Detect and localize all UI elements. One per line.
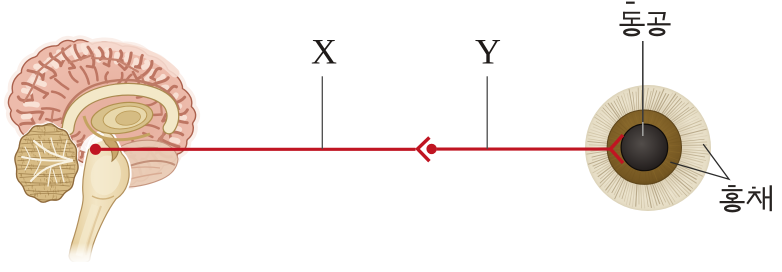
neuron Y axon (wire) <box>437 148 611 151</box>
iris inner brown ring <box>607 110 681 184</box>
sulci <box>18 111 43 113</box>
top highlight band <box>30 46 175 85</box>
red neural pathway <box>90 135 623 163</box>
temporal lobe pale region <box>106 140 178 187</box>
neuron Y cell body (dot) <box>426 144 436 154</box>
neuron X cell body (dot in midbrain) <box>90 144 101 155</box>
svg-text:Y: Y <box>475 32 501 72</box>
brainstem (one mass, white separation under-stroke) <box>69 133 129 263</box>
white cistern wedge near dot <box>80 133 104 153</box>
soft outer halo <box>8 40 195 185</box>
brain (midsagittal section) <box>8 40 195 272</box>
svg-text:X: X <box>311 32 337 72</box>
thalamus <box>89 98 155 137</box>
cingulate arc around corpus callosum <box>62 80 179 124</box>
eye (front view of iris and pupil) <box>585 85 711 211</box>
cerebrum <box>8 40 195 185</box>
cerebellum (white separation halo) <box>15 124 78 202</box>
corpus callosum <box>68 89 173 129</box>
midbrain dark crescent right of dot <box>103 138 118 161</box>
label 홍채 (iris), drawn as vector glyphs <box>720 185 772 211</box>
neuron X axon (wire) <box>96 148 416 151</box>
pons bulge highlight <box>88 153 124 198</box>
neuron X axon terminal (synapse arrowhead) <box>418 138 430 162</box>
leader line from X to axon <box>321 76 323 149</box>
neuron Y axon terminal at iris (arrowhead) <box>611 135 624 163</box>
fornix <box>84 116 150 140</box>
label 동공 (pupil), drawn as vector glyphs <box>620 2 671 36</box>
cord shading <box>79 205 95 256</box>
cord fade-out <box>58 243 104 265</box>
pupil <box>621 124 668 171</box>
leader line from label 동공 to pupil <box>642 41 644 124</box>
iris outer striated ring <box>585 85 711 211</box>
leader line from Y to axon <box>486 76 488 149</box>
leader lines from label 홍채 to iris <box>670 144 729 179</box>
cerebellum <box>15 124 78 202</box>
